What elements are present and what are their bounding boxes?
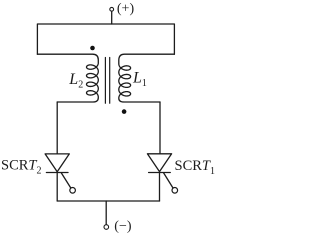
wire to (-) terminal [105,201,107,224]
SCR T2 gate terminal circle [70,188,76,194]
svg-text:SCRT1: SCRT1 [175,158,216,177]
SCR T2 gate wire [61,173,71,188]
SCR T1 gate wire [164,173,173,188]
svg-text:SCRT2: SCRT2 [1,158,42,177]
SCR T2 (thyristor triangle and cathode bar) [45,154,69,173]
inductor L1 (right winding with lead wires) [119,54,175,102]
wire from (+) terminal [111,11,113,24]
polarity dot L1 [122,109,127,114]
terminal (+) [110,7,114,11]
svg-text:(+): (+) [117,1,135,16]
svg-text:(−): (−) [114,219,132,234]
wire left vertical to SCR T2 [56,102,58,154]
svg-text:L1: L1 [132,70,147,89]
wire top rectangle (top, left, right sides) [37,24,174,54]
transformer core bar 1 [104,58,106,104]
wire below SCR T2 [56,173,58,202]
SCR T1 gate terminal circle [172,188,178,194]
polarity dot L2 [90,46,95,51]
wire right vertical to SCR T1 [159,102,161,154]
transformer core bar 2 [109,58,111,104]
inductor L2 (left winding with lead wires) [37,54,98,102]
svg-text:L2: L2 [68,71,83,90]
wire below SCR T1 [159,173,161,202]
SCR T1 (thyristor triangle and cathode bar) [147,154,171,173]
wire bottom bus [57,200,159,202]
terminal (-) [104,225,109,230]
